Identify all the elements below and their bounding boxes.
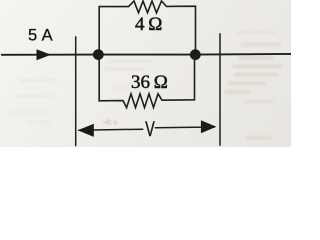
node dot right [190,49,201,60]
svg-text:4 Ω: 4 Ω [135,14,162,35]
voltage arrowhead left [78,124,94,137]
node dot left [93,49,104,60]
svg-text:5 A: 5 A [28,27,53,45]
voltmeter reference line left [75,37,77,146]
voltage arrow shaft left [79,129,143,130]
svg-text:36 Ω: 36 Ω [131,72,168,93]
voltage arrow shaft right [156,126,215,129]
wire: left input lead [2,54,98,56]
paper bleed-through smudges (decorative) [10,31,282,140]
wire: middle segment between nodes [98,54,196,56]
label: V voltage [145,117,155,140]
svg-text:≈0. ʋ: ≈0. ʋ [103,120,117,127]
voltmeter reference line right [219,34,221,145]
resistor R2 36-ohm bottom branch with zigzag [99,55,194,108]
wire: right output lead [196,53,292,56]
svg-text:V: V [145,117,155,140]
current direction arrowhead [37,49,52,60]
voltage arrowhead right [201,120,217,133]
resistor R1 4-ohm top branch with zigzag [99,1,195,55]
